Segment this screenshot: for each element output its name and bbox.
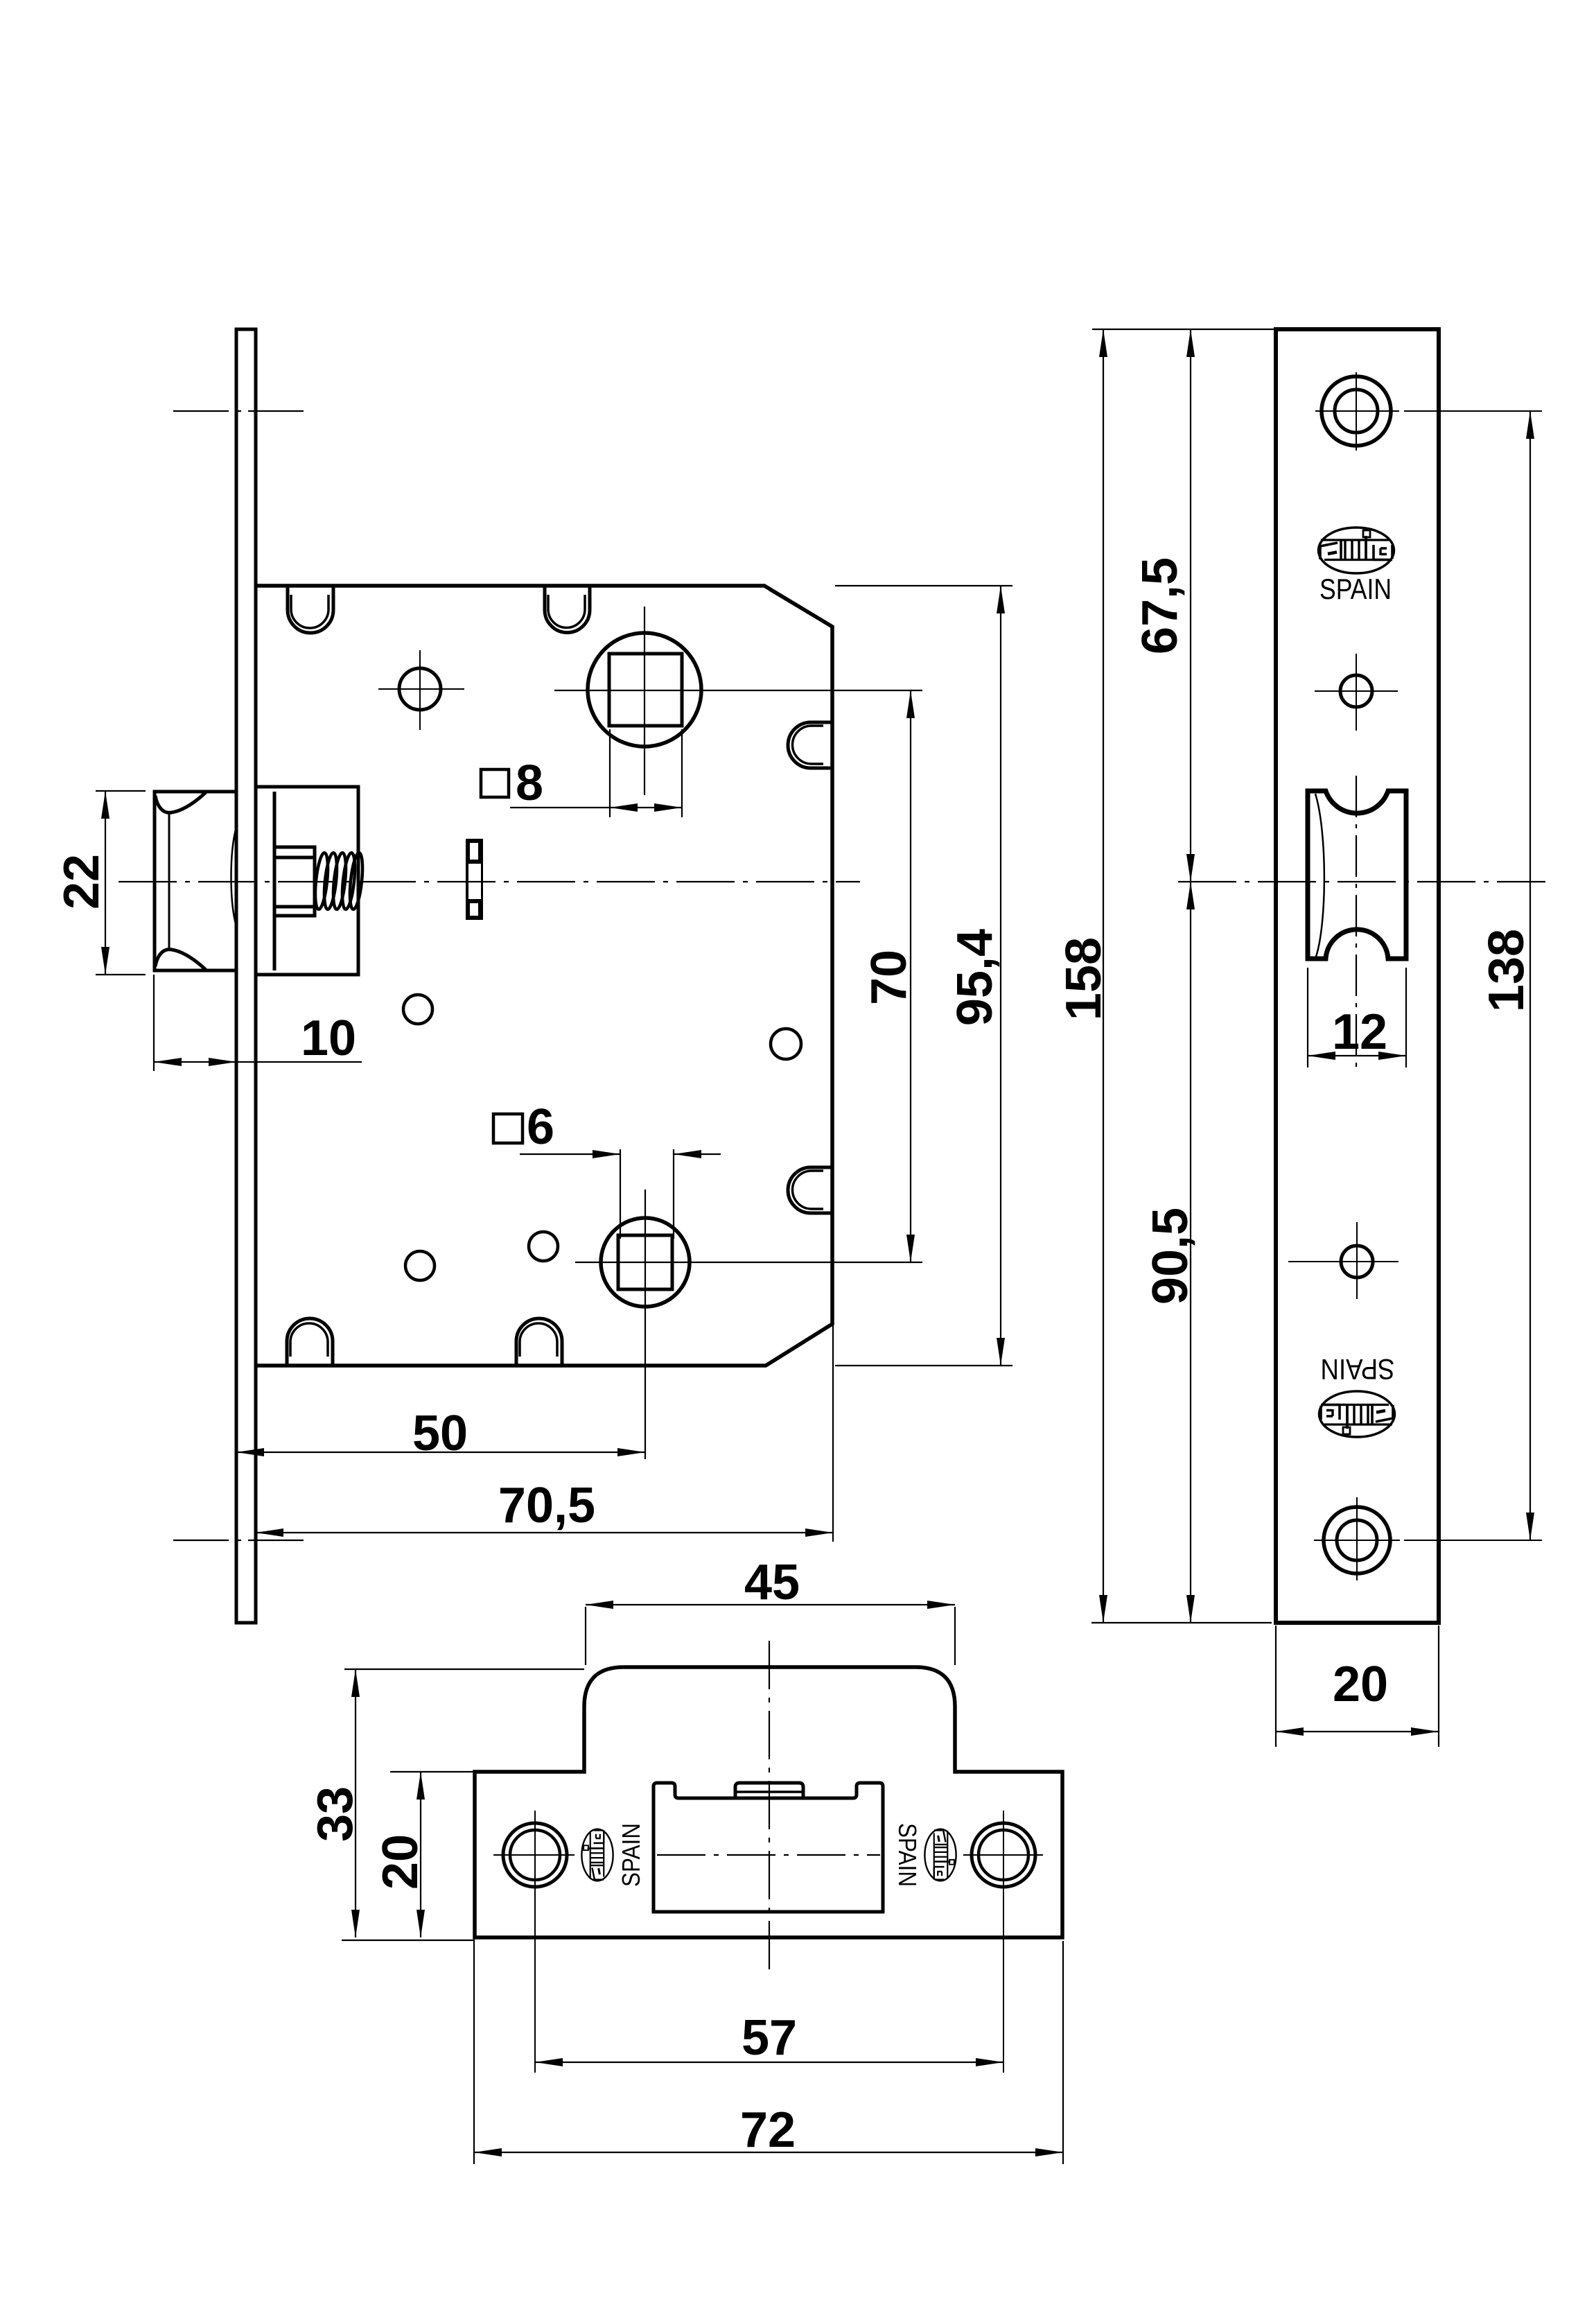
bottom screw hole (1324, 1507, 1390, 1574)
strike plate outline with lip (475, 1667, 1062, 1937)
svg-text:SPAIN: SPAIN (893, 1823, 922, 1887)
dimension 90,5 (1190, 882, 1191, 1623)
latch rear guide box (256, 787, 358, 975)
svg-text:158: 158 (1056, 937, 1112, 1020)
dimension 20 (strike) (390, 1771, 473, 1772)
svg-text:20: 20 (1333, 1657, 1388, 1712)
rear box inner line (273, 792, 277, 970)
svg-text:57: 57 (742, 2010, 797, 2066)
dimension 50 (236, 1452, 645, 1453)
dimension 8 extension lines (610, 729, 682, 817)
small hole (right) (771, 1029, 801, 1059)
dimension 138 (1529, 411, 1531, 1540)
faceplate front outline (1276, 329, 1439, 1623)
main horizontal centerline (119, 881, 860, 882)
svg-text:8: 8 (516, 756, 543, 811)
dimension 8 line with leader (510, 807, 682, 808)
strike vertical centerline (769, 1641, 770, 1972)
faceplate (side view) (236, 329, 256, 1623)
dimension 57 (535, 2062, 1003, 2063)
svg-text:6: 6 (527, 1099, 554, 1155)
dimension 12 (1308, 968, 1406, 1068)
svg-text:12: 12 (1332, 1004, 1387, 1060)
lock body outline (256, 586, 832, 1366)
dimension 158 (1103, 329, 1104, 1623)
dimension 95,4 (835, 586, 1012, 1366)
svg-text:20: 20 (373, 1834, 428, 1890)
label square 8 (481, 769, 509, 797)
svg-text:10: 10 (301, 1011, 356, 1066)
svg-text:SPAIN: SPAIN (1319, 573, 1392, 605)
dimension 67,5 (1190, 329, 1191, 882)
latch head top bevel arc (155, 792, 206, 812)
arrow 8 left (610, 803, 638, 812)
right screw hole (strike) (972, 1823, 1035, 1887)
svg-text:50: 50 (412, 1406, 468, 1461)
right edge notch B (788, 1167, 832, 1213)
small hole (mid left) (403, 995, 432, 1024)
center guide piece (466, 839, 483, 920)
top notch A (288, 586, 333, 633)
main horizontal centerline (right view) (1178, 881, 1545, 882)
svg-text:72: 72 (740, 2102, 796, 2158)
right edge notch A (788, 722, 832, 768)
latch bolt head (155, 792, 236, 970)
small hole lower middle (1341, 1246, 1373, 1278)
dimension 33 (342, 1669, 584, 1940)
svg-text:70,5: 70,5 (498, 1478, 595, 1533)
latch stem (274, 847, 315, 916)
latch bevel curve (front view) (1315, 794, 1324, 957)
svg-text:33: 33 (308, 1786, 363, 1842)
top screw axis tick on faceplate (173, 410, 305, 412)
strike box tab (735, 1783, 803, 1798)
bottom notch B (516, 1318, 562, 1366)
opening vertical centerline (1356, 776, 1357, 1071)
svg-text:95,4: 95,4 (947, 929, 1003, 1026)
strike latch box (654, 1783, 883, 1912)
svg-text:45: 45 (744, 1555, 800, 1610)
label square 6 (493, 1114, 523, 1143)
dimension 70,5 (832, 1325, 834, 1542)
svg-text:SPAIN: SPAIN (617, 1823, 645, 1887)
lower spindle hub circle (601, 1218, 690, 1307)
AMIG logo top (1319, 528, 1394, 573)
dimension 10 (153, 975, 155, 1071)
svg-text:22: 22 (54, 854, 109, 909)
left screw hole (strike) (503, 1823, 567, 1887)
dimension 20 (plate width) (1276, 1626, 1439, 1747)
upper spindle centerlines (644, 607, 645, 795)
small hole with crosshair (upper left) (399, 668, 441, 710)
arrow 6 left (593, 1150, 620, 1158)
bottom notch A (287, 1318, 333, 1366)
dimension 6 line with leader (520, 1153, 721, 1155)
arrow 6 right (674, 1150, 701, 1158)
latch head inner edge line (168, 812, 170, 949)
upper spindle hub circle (588, 633, 701, 747)
AMIG logo strike left (581, 1829, 613, 1881)
svg-text:SPAIN: SPAIN (1321, 1353, 1395, 1386)
upper square spindle hole (609, 654, 682, 726)
svg-text:67,5: 67,5 (1132, 557, 1188, 654)
top notch B (545, 586, 590, 633)
latch spring (313, 852, 365, 909)
strike box horizontal centerline (657, 1854, 880, 1856)
dimension 45 (586, 1607, 955, 1665)
small hole upper middle (1340, 675, 1372, 707)
dimension 22 (96, 791, 146, 975)
svg-text:70: 70 (861, 950, 917, 1005)
svg-text:90,5: 90,5 (1143, 1208, 1198, 1305)
AMIG logo strike right (924, 1829, 956, 1881)
lower spindle centerlines (644, 1190, 646, 1459)
AMIG logo upside down (1319, 1391, 1395, 1437)
small hole (lower left) (405, 1251, 435, 1280)
top chamfer sliver (769, 590, 827, 625)
bottom chamfer sliver (771, 1326, 829, 1363)
bottom screw axis tick on faceplate (173, 1540, 305, 1541)
latch bevel projection arc (231, 827, 237, 927)
dimension 6 extension lines (620, 1149, 674, 1239)
dimension 72 (474, 1941, 1063, 2164)
dimension 70 (910, 690, 911, 1262)
top screw hole (1322, 376, 1391, 446)
latch head bottom bevel arc (155, 950, 206, 970)
arrow 8 right (654, 803, 682, 812)
svg-text:138: 138 (1479, 929, 1534, 1012)
extension lines top/bottom of plate (1091, 329, 1274, 1623)
lower square spindle hole (618, 1235, 672, 1289)
small hole (lower mid) (529, 1232, 558, 1261)
latch opening (1308, 791, 1406, 959)
